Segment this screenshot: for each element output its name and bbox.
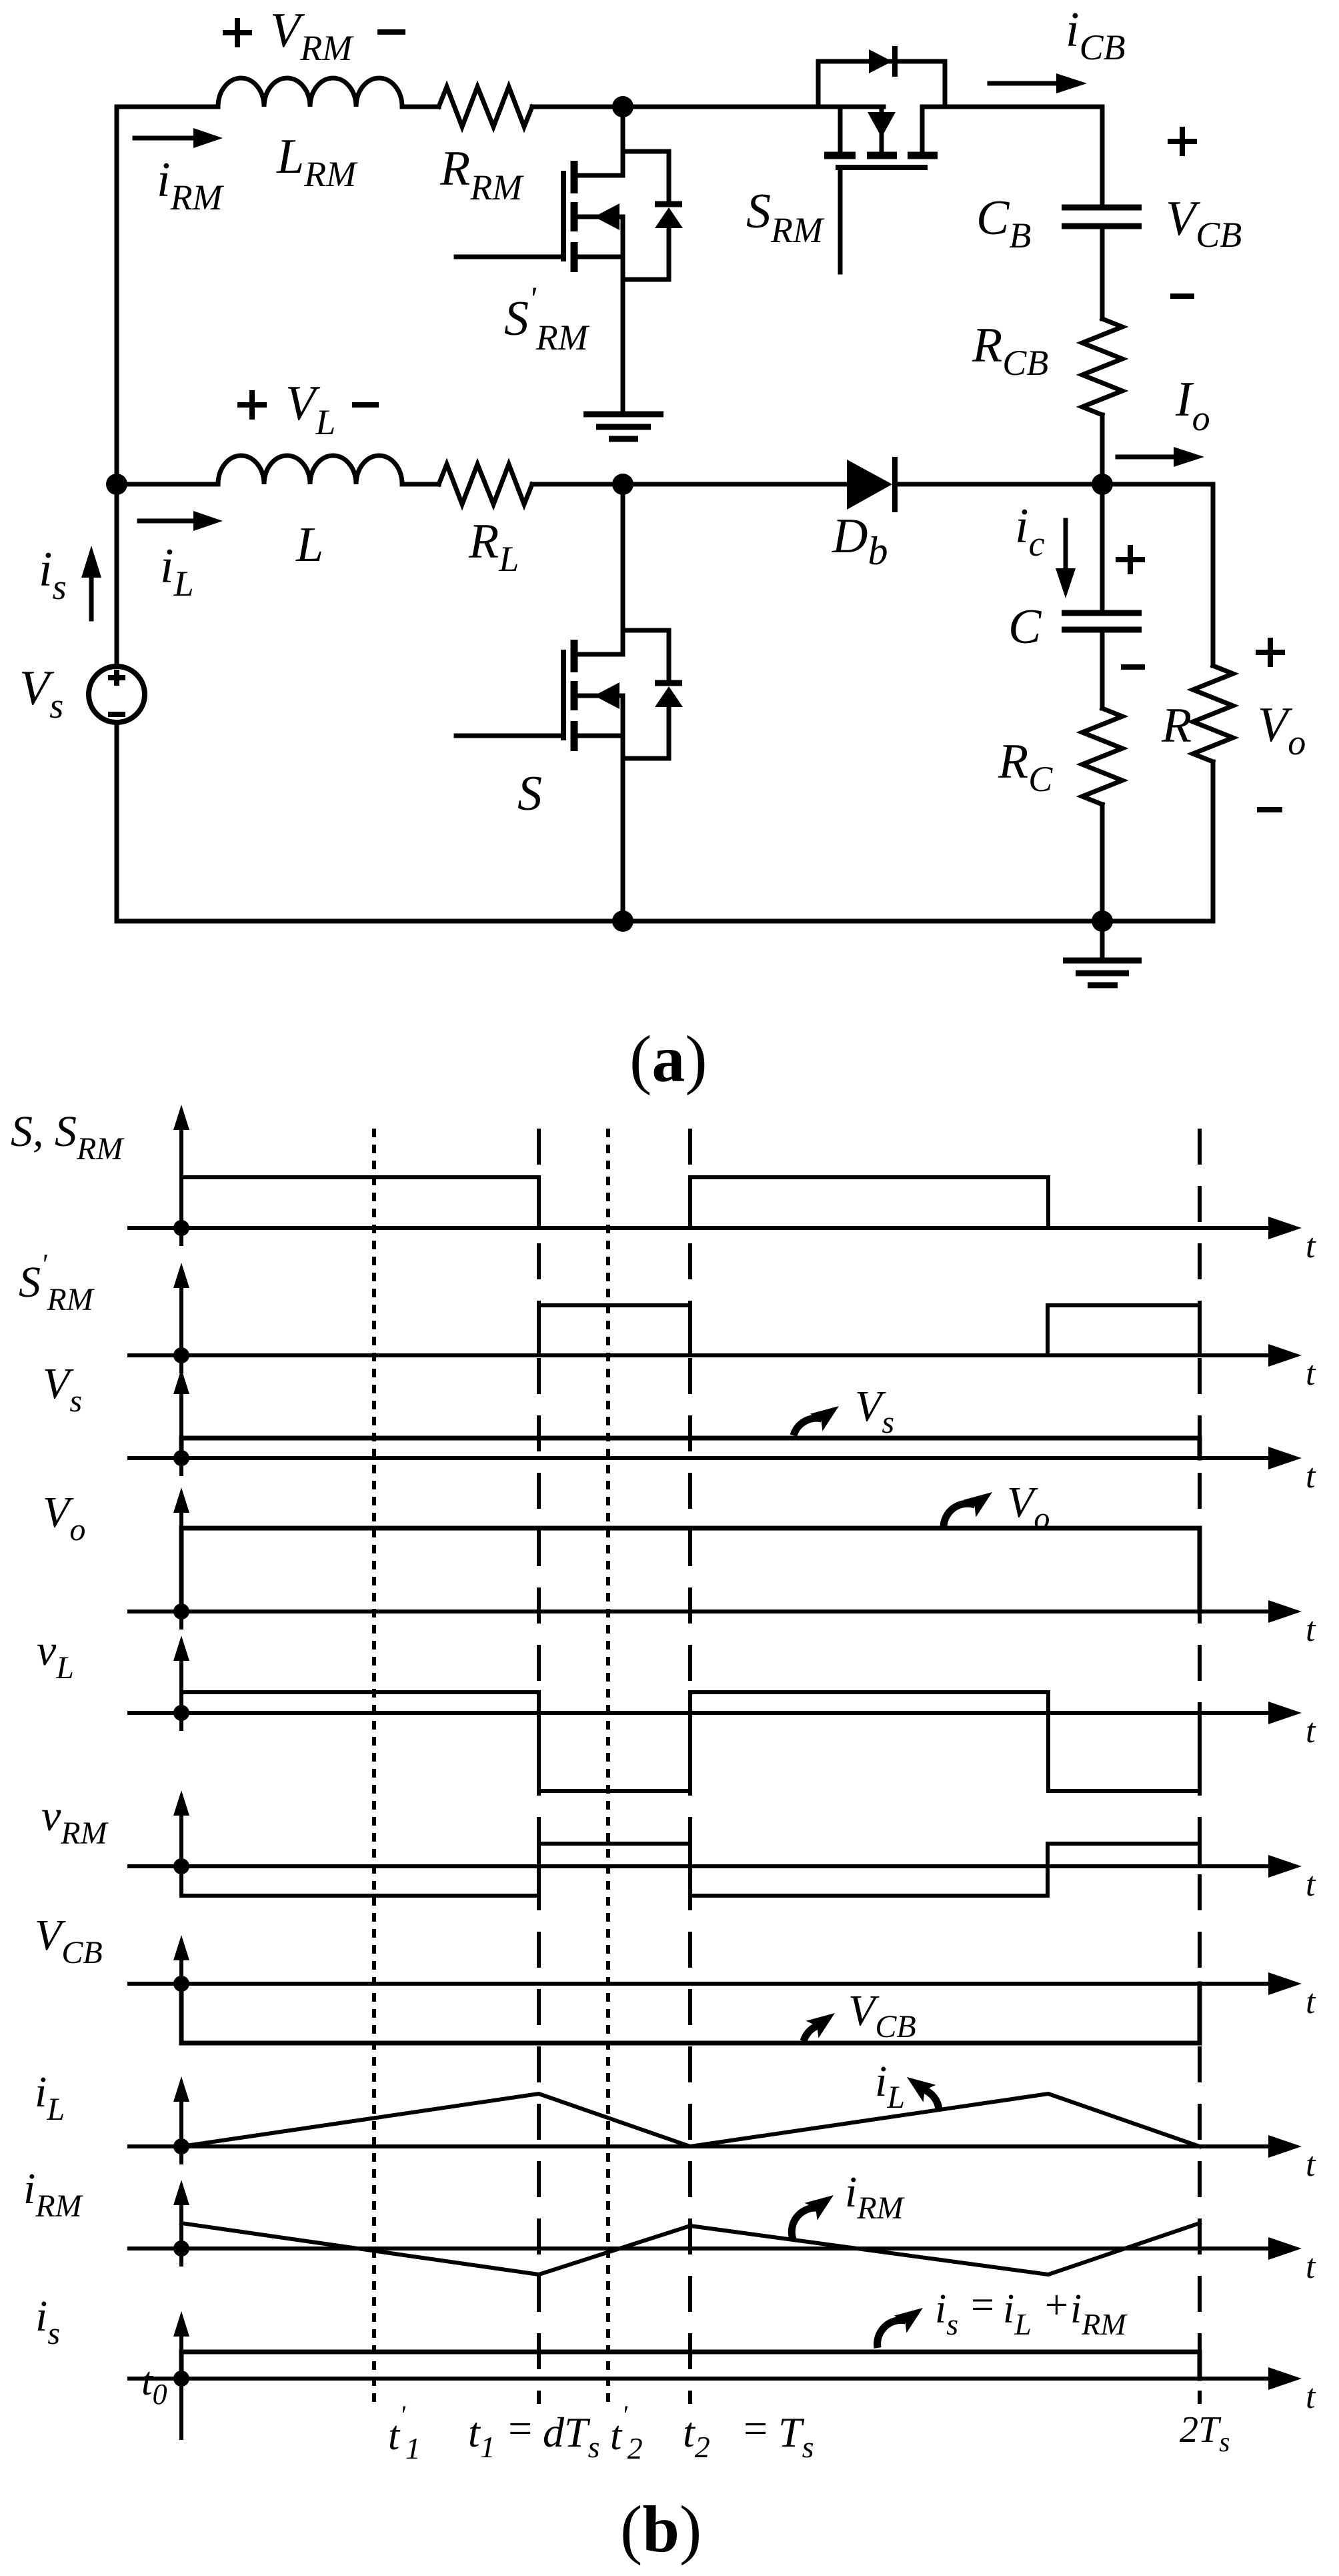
output node (1092, 474, 1113, 495)
S'_RM body arrow head (594, 203, 619, 230)
waveform i_s (181, 2352, 1200, 2379)
arrow i_L (139, 519, 195, 524)
node at drain of S_RM branch (612, 96, 633, 117)
waveform V_CB (181, 1984, 1200, 2043)
S_RM gate lead (838, 170, 843, 272)
V_s plus mark (111, 672, 123, 683)
wire R to bottom rail (1211, 762, 1216, 921)
node bottom output (1092, 910, 1113, 932)
guide dashed 2Ts (1198, 1129, 1202, 2404)
arrow i_s (89, 576, 94, 619)
axis iRM (129, 2246, 1268, 2250)
S source horizontal (576, 734, 623, 738)
resistor R_CB (1082, 319, 1122, 415)
svg-text:t: t (1306, 1355, 1316, 1393)
waveform i_RM (181, 2223, 1200, 2275)
svg-text:R: R (1161, 698, 1192, 753)
S body diode loop bottom (623, 707, 669, 758)
S body diode triangle (655, 686, 683, 707)
waveform S'_RM (539, 1305, 1200, 1355)
waveform V_s (181, 1438, 1200, 1458)
waveform v_RM (181, 1844, 1200, 1896)
label C minus (1124, 664, 1142, 670)
label V_o minus (1260, 807, 1280, 812)
label + V_RM - (225, 21, 249, 45)
wire R_CB to mid node (1100, 415, 1105, 484)
svg-text:=: = (968, 2283, 996, 2328)
label V_o plus (1258, 640, 1282, 664)
S'_RM body diode loop bottom (623, 228, 669, 279)
S'_RM source vertical to ground (621, 217, 625, 414)
guide dashed t1 (537, 1129, 541, 2404)
axis vRM (129, 1864, 1268, 1868)
arrow i_RM (135, 136, 195, 141)
source V_s circle (89, 666, 145, 722)
svg-text:t: t (1306, 1227, 1316, 1265)
S_RM body-diode cathode bar (892, 49, 898, 74)
MOSFET S'_RM drain vertical (621, 107, 625, 175)
S'_RM body diode triangle (655, 207, 683, 228)
arrow i_c (1064, 520, 1068, 570)
S'_RM body diode loop top (623, 151, 669, 201)
label V_CB plus (1170, 129, 1194, 153)
svg-text:=: = (741, 2405, 770, 2452)
svg-text:L: L (295, 518, 323, 572)
node at S drain (612, 474, 633, 495)
S body diode cathode bar (655, 680, 682, 686)
axis Vo (129, 1609, 1268, 1614)
mid rail left segment (117, 482, 218, 487)
svg-text:t: t (1306, 1866, 1316, 1904)
axis is (129, 2377, 1268, 2381)
resistor R_L (439, 464, 532, 504)
label + V_L - (240, 393, 264, 417)
wire C to R_C (1100, 632, 1105, 708)
axis vL (129, 1711, 1268, 1715)
wire node to S_RM (623, 105, 884, 109)
diode D_b triangle (847, 460, 892, 510)
guide dashed t2 (688, 1129, 692, 2404)
svg-text:t: t (1306, 1611, 1316, 1649)
wire V_s to bottom rail (115, 722, 119, 921)
capacitor C plates (1062, 610, 1142, 616)
guide dotted t2p (606, 1129, 610, 2403)
S_RM right lead (920, 107, 925, 152)
S_RM body-diode loop (818, 61, 945, 107)
arrow i_CB (990, 81, 1058, 86)
svg-text:C: C (1008, 600, 1042, 654)
label V_CB minus (1173, 293, 1192, 299)
resistor R (1193, 666, 1233, 762)
svg-text:t: t (1306, 2248, 1316, 2286)
wire R_C to bottom node (1100, 804, 1105, 921)
S'_RM body horizontal (576, 215, 623, 219)
node bottom S branch (612, 910, 633, 932)
S channel bars (571, 640, 578, 672)
svg-text:(b): (b) (620, 2492, 702, 2566)
ground at output (1100, 921, 1105, 958)
ground under S'_RM (583, 414, 663, 439)
guide dotted t1p (372, 1129, 376, 2403)
bottom rail (117, 919, 1213, 924)
S body horizontal (576, 694, 623, 698)
wire output node down to C (1100, 484, 1105, 610)
svg-text:t: t (1306, 1712, 1316, 1750)
node mid-left (106, 474, 127, 495)
wire: top rail left + left rail (117, 107, 218, 666)
wire corner down to C_B (1100, 107, 1105, 205)
waveform v_L (181, 1692, 1200, 1791)
S source vertical (621, 696, 625, 921)
svg-text:S: S (517, 766, 542, 821)
wire R_RM to node (532, 105, 623, 109)
S_RM body arrow stem (880, 107, 884, 152)
svg-text:t: t (1306, 1983, 1316, 2021)
wire between L and R_L (402, 482, 439, 487)
svg-text:t: t (1306, 2146, 1316, 2184)
S gate bar (561, 652, 566, 738)
S_RM left lead (838, 107, 843, 152)
arrow I_o (1118, 455, 1175, 460)
S'_RM gate lead (456, 255, 561, 259)
V_s minus mark (111, 712, 123, 717)
S'_RM gate bar (561, 173, 566, 259)
wire corner down to R (1211, 484, 1216, 666)
S'_RM channel bars (571, 161, 578, 193)
wire S_RM to right corner (922, 105, 1102, 109)
S'_RM body diode cathode bar (655, 201, 682, 207)
diode D_b cathode bar (892, 460, 898, 510)
MOSFET S drain vertical (621, 484, 625, 654)
wire R_L to node (532, 482, 623, 487)
wire between L_RM and R_RM (402, 105, 439, 109)
axis VCB (129, 1982, 1268, 1986)
annotation V_CB (804, 2026, 818, 2041)
S drain horizontal (576, 652, 623, 657)
waveform i_L (181, 2094, 1200, 2146)
S_RM body-diode triangle (869, 49, 892, 73)
capacitor C_B plates (1062, 205, 1142, 211)
S body diode loop top (623, 630, 669, 680)
annotation i_s = i_L + i_RM (878, 2320, 906, 2348)
svg-text:t: t (1306, 1457, 1316, 1495)
svg-text:t: t (1306, 2378, 1316, 2416)
wire output node to load corner (1102, 482, 1213, 487)
svg-text:=: = (505, 2405, 534, 2452)
annotation V_s (794, 1418, 822, 1435)
resistor R_RM (439, 87, 532, 127)
S'_RM source horizontal (576, 255, 623, 259)
svg-text:+: + (1042, 2283, 1070, 2328)
wire D_b to output node (895, 482, 1102, 487)
S_RM gate bar (838, 165, 925, 170)
waveform S,S_RM (181, 1177, 1048, 1228)
annotation i_RM (792, 2208, 816, 2239)
S'_RM drain horizontal (576, 173, 623, 178)
S body arrow head (594, 682, 619, 709)
waveform V_o (181, 1528, 1200, 1612)
label C plus (1118, 548, 1142, 572)
resistor R_C (1082, 708, 1122, 804)
axis SRMp (129, 1353, 1268, 1357)
inductor L_RM (218, 78, 402, 107)
wire C_B to R_CB (1100, 229, 1105, 319)
S_RM channel bars (824, 152, 856, 159)
wire node to D_b (623, 482, 847, 487)
axis S-SRM (129, 1226, 1268, 1230)
inductor L (218, 456, 402, 484)
annotation V_o (944, 1503, 975, 1527)
axis iL (129, 2144, 1268, 2148)
S_RM body arrow head (868, 112, 896, 137)
S gate lead (456, 734, 561, 738)
svg-text:(a): (a) (629, 1022, 708, 1096)
axis Vs (129, 1456, 1268, 1460)
